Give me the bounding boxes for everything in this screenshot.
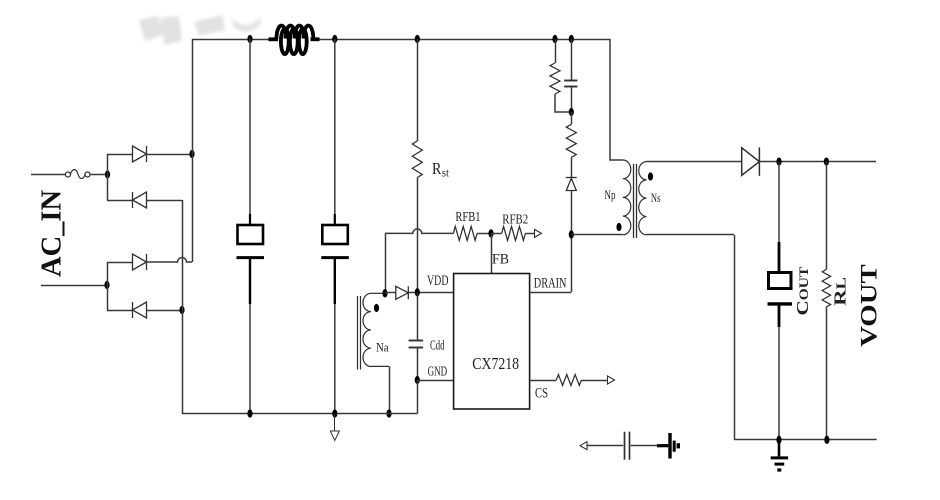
wire Np bottom to drain — [571, 234, 623, 236]
arrow FB out — [535, 229, 542, 237]
wire top rail to Np — [610, 39, 623, 160]
wire DRAIN — [530, 292, 572, 294]
junction D1 cathode node — [189, 150, 194, 158]
wire CS — [530, 380, 557, 382]
svg-text:RFB2: RFB2 — [502, 212, 528, 227]
arrow Y-cap left — [580, 442, 587, 450]
ground chassis (bold) — [657, 433, 674, 459]
diode Dvdd — [396, 286, 409, 299]
svg-text:VDD: VDD — [427, 273, 449, 289]
junction top rail snubber R — [552, 35, 557, 43]
resistor Rst — [412, 141, 422, 178]
fuse F1 — [65, 172, 70, 177]
core Na — [357, 296, 359, 370]
wire bridge left upper — [107, 154, 109, 200]
svg-text:GND: GND — [428, 365, 448, 380]
wire GND pin — [417, 380, 453, 382]
resistor snubber — [550, 63, 560, 94]
wire row1 left — [107, 154, 133, 156]
junction AC1 node — [105, 170, 110, 178]
capacitor Cdd — [409, 340, 424, 342]
wire to snubber diode — [571, 157, 573, 178]
diode snubber (up) — [566, 177, 577, 179]
inductor L1 — [269, 26, 320, 55]
svg-text:CS: CS — [535, 386, 548, 402]
wire output bottom rail — [734, 439, 877, 441]
svg-text:R: R — [432, 159, 442, 178]
capacitor CY — [624, 432, 626, 460]
resistor RL — [822, 269, 830, 307]
wire Y-cap left — [587, 445, 623, 447]
diode Dout — [742, 148, 760, 176]
diode D2 — [133, 192, 147, 208]
wire RFB1 left drop — [385, 233, 387, 293]
svg-text:Cdd: Cdd — [430, 339, 444, 354]
wire RFB1 row with hump over Rst line — [385, 229, 453, 234]
wire secondary return vertical — [734, 235, 736, 440]
wire Ns top to diode — [647, 161, 742, 163]
wire Rst top — [417, 39, 419, 141]
wire bridge minus vertical — [182, 200, 184, 414]
wire to snubber R2 — [571, 112, 573, 124]
wire AC line1 to fuse — [31, 174, 65, 176]
wire Y-cap right — [631, 445, 657, 447]
junction top rail C2 — [332, 35, 337, 43]
wire row1 right — [147, 154, 193, 156]
wire CS to arrow — [581, 380, 607, 382]
wire row2 right — [147, 200, 183, 202]
wire VDD — [408, 292, 453, 294]
winding Na — [371, 292, 385, 294]
op-amp U1 CX7218 — [454, 274, 530, 410]
junction RL top — [824, 157, 829, 165]
wire AC line2 to bridge — [41, 285, 107, 287]
junction top rail snubber C — [569, 35, 574, 43]
wire bridge left lower — [107, 262, 109, 310]
wire snubber R top — [555, 39, 557, 63]
winding Np — [623, 160, 631, 235]
resistor snubber R2 — [566, 124, 576, 157]
svg-text:FB: FB — [492, 252, 509, 268]
wire row4 left — [107, 310, 133, 312]
junction VDD node — [415, 288, 420, 296]
wire top rail left — [192, 39, 269, 41]
wire RL bottom — [826, 307, 828, 440]
junction rail C2 — [332, 409, 337, 417]
wire FB to IC — [491, 233, 493, 273]
svg-text:AC_IN: AC_IN — [37, 189, 68, 277]
junction GND node — [415, 376, 420, 384]
svg-text:VOUT: VOUT — [857, 264, 882, 347]
winding Ns — [639, 162, 647, 235]
diode D4 — [133, 302, 147, 318]
wire node to RFB2 — [491, 233, 502, 235]
junction snubber node — [569, 108, 574, 116]
svg-text:CX7218: CX7218 — [472, 354, 519, 373]
wire top rail right — [320, 39, 611, 41]
phase dot Ns — [648, 172, 653, 180]
wire fuse to bridge — [90, 174, 107, 176]
svg-text:Ns: Ns — [651, 190, 661, 205]
wire row2 left — [107, 200, 133, 202]
junction Na top node — [382, 289, 387, 297]
wire Cdd to GND node — [417, 348, 419, 380]
wire snubber R bottom — [555, 94, 571, 112]
wire snubber to drain node — [571, 191, 573, 235]
junction top rail C1 — [247, 35, 252, 43]
junction rail C1 — [247, 409, 252, 417]
svg-text:RFB1: RFB1 — [455, 209, 480, 224]
wire RL top — [826, 162, 828, 270]
junction RL bottom — [824, 436, 829, 444]
wire Rst to VDD node — [417, 178, 419, 293]
phase dot Na — [374, 304, 379, 312]
junction AC2 node — [104, 281, 109, 289]
junction FB node — [488, 229, 493, 237]
junction Cout top — [776, 157, 781, 165]
junction drain node — [569, 230, 574, 238]
wire Ns bottom — [647, 234, 735, 236]
wire snubber C top — [571, 39, 573, 81]
diode D3 — [133, 254, 147, 270]
resistor RFB1 — [453, 226, 477, 240]
svg-text:Np: Np — [604, 187, 615, 202]
wire row3 left — [107, 262, 133, 264]
diode D1 — [133, 146, 147, 162]
phase dot Np — [616, 223, 621, 231]
junction Na return on rail — [386, 409, 391, 417]
wire output top rail — [759, 161, 876, 163]
wire drain vertical — [571, 235, 573, 293]
wire RFB1 to node — [477, 233, 491, 235]
capacitor snubber — [564, 80, 577, 82]
capacitor Cout — [768, 162, 793, 440]
arrow CS out — [608, 376, 615, 384]
ground secondary — [771, 440, 788, 470]
wire snubber C bottom — [571, 86, 573, 112]
ground arrow primary — [334, 414, 336, 431]
svg-text:Na: Na — [376, 339, 389, 354]
transformer core — [633, 164, 635, 238]
wire VDD to Cdd — [417, 293, 419, 341]
wire to Dvdd — [385, 292, 396, 294]
svg-text:st: st — [442, 168, 450, 180]
wire bridge plus vertical — [192, 39, 194, 262]
wire bottom rail — [182, 413, 417, 415]
junction D4 anode node — [179, 306, 184, 314]
svg-text:DRAIN: DRAIN — [534, 276, 567, 292]
wire row4 right — [147, 310, 183, 312]
resistor Rcs — [556, 375, 581, 386]
wire GND to rail — [417, 380, 419, 414]
junction gnd2 node — [776, 436, 781, 444]
junction top rail Rst — [415, 35, 420, 43]
wire RFB2 to arrow — [525, 233, 534, 235]
capacitor C1 — [237, 39, 265, 414]
resistor RFB2 — [502, 226, 526, 240]
wire Na return — [389, 366, 391, 413]
capacitor C2 — [321, 39, 349, 414]
wire row3 right with crossover hump — [147, 258, 193, 263]
